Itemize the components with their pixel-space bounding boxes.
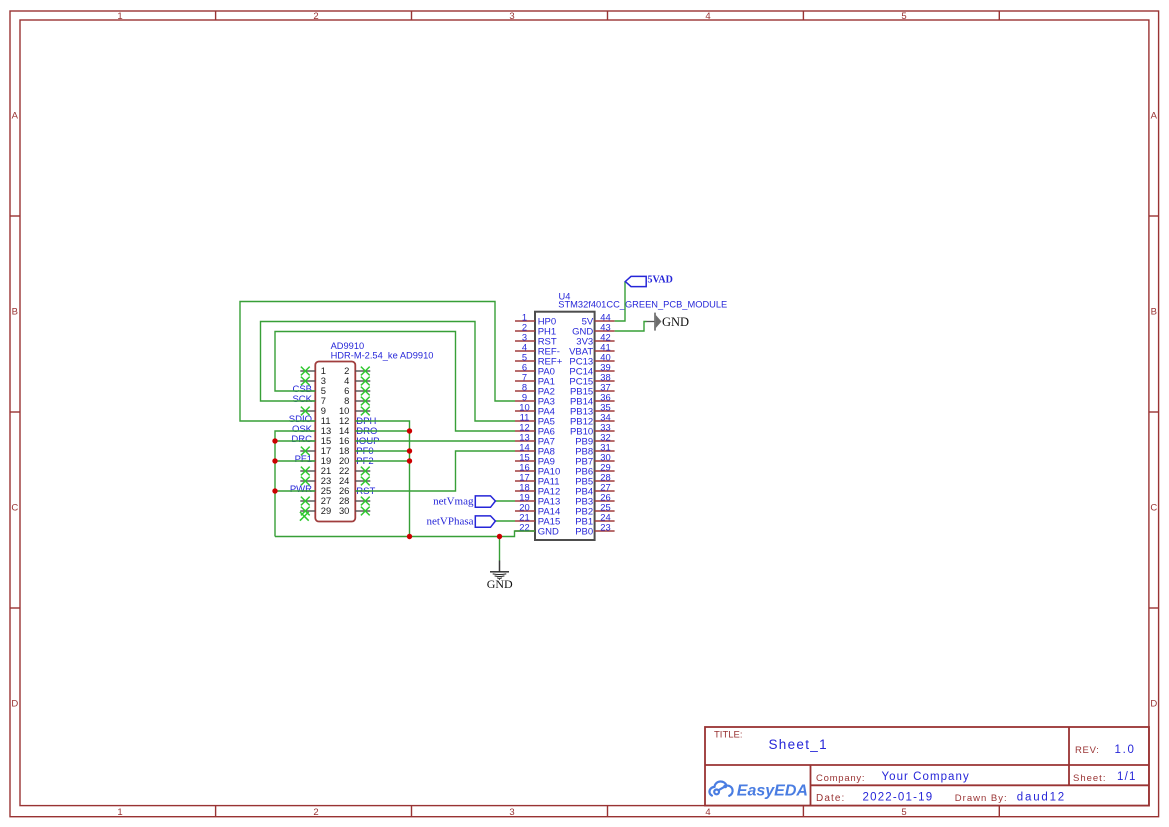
U4 pin 36 (PB14) — [570, 391, 615, 407]
svg-text:5: 5 — [901, 11, 906, 22]
net label PF2 at AD9910 right pin row 10 — [356, 456, 373, 467]
svg-text:REV:: REV: — [1075, 745, 1100, 756]
AD9910 pin 28 — [339, 495, 370, 506]
svg-text:EasyEDA: EasyEDA — [737, 782, 808, 799]
AD9910 pin 5 — [300, 385, 326, 396]
AD9910 pin 3 — [300, 375, 326, 386]
svg-text:A: A — [1151, 111, 1158, 122]
U4 pin 42 (3V3) — [576, 331, 614, 347]
U4 pin 14 (PA8) — [515, 441, 555, 457]
U4 pin 41 (VBAT) — [569, 341, 615, 357]
AD9910 pin 24 — [339, 475, 370, 486]
net port netVmag — [433, 496, 495, 508]
wire net CSB: AD9910 pin 5 to U4 PA6 — [275, 332, 515, 432]
svg-text:3: 3 — [509, 11, 514, 22]
U4 pin 33 (PB10) — [570, 421, 615, 437]
AD9910 pin 2 — [344, 365, 370, 376]
U4 pin 19 (PA13) — [515, 491, 560, 507]
U4 pin 34 (PB12) — [570, 411, 615, 427]
svg-text:Date:: Date: — [816, 793, 845, 804]
U4 pin 20 (PA14) — [515, 501, 560, 517]
wire net PF1: AD9910 pin 19 to left rail — [275, 460, 315, 462]
U4 pin 9 (PA3) — [515, 391, 555, 407]
ground symbol GND (right of U4 pin 43) — [647, 313, 661, 331]
AD9910 pin 14 — [339, 425, 370, 436]
AD9910 pin 16 — [339, 435, 370, 446]
component U4 body — [535, 312, 595, 540]
svg-text:Sheet_1: Sheet_1 — [769, 737, 828, 752]
U4 pin 17 (PA11) — [515, 471, 560, 487]
junction at 409.5,536.5 — [407, 534, 412, 539]
AD9910 pin 29 — [300, 505, 331, 516]
AD9910 pin 30 — [339, 505, 370, 516]
AD9910 pin 10 — [339, 405, 370, 416]
svg-text:PF1: PF1 — [295, 454, 312, 465]
svg-text:1.0: 1.0 — [1115, 744, 1136, 756]
svg-text:PWR: PWR — [290, 484, 312, 495]
net label DRC at AD9910 left pin row 8 — [291, 434, 312, 445]
junction at 275,441 — [272, 438, 277, 443]
AD9910 pin 7 — [300, 395, 326, 406]
net label PF0 at AD9910 right pin row 9 — [356, 446, 373, 457]
svg-text:1: 1 — [117, 11, 122, 22]
component AD9910 body — [315, 362, 355, 522]
U4 pin 6 (PA0) — [515, 361, 555, 377]
svg-text:A: A — [12, 111, 19, 122]
AD9910 pin 13 — [300, 425, 331, 436]
svg-text:1: 1 — [117, 807, 122, 818]
svg-text:TITLE:: TITLE: — [714, 730, 743, 741]
junction at 499.5,536.5 — [497, 534, 502, 539]
wire net DRC: AD9910 pin 15 to left rail — [275, 440, 315, 442]
wire net SCK: AD9910 pin 7 to U4 PA5 — [261, 322, 516, 422]
U4 pin 26 (PB3) — [575, 491, 614, 507]
AD9910 pin 8 — [344, 395, 370, 406]
svg-text:GND: GND — [487, 577, 513, 591]
AD9910 pin 17 — [300, 445, 331, 456]
wire net RST: AD9910 pin 26 to U4 PA8 — [355, 451, 515, 491]
U4 pin 10 (PA4) — [515, 401, 555, 417]
svg-text:netVPhasa: netVPhasa — [426, 516, 473, 528]
AD9910 pin 23 — [300, 475, 331, 486]
svg-text:2: 2 — [313, 807, 318, 818]
U4 pin 1 (HP0) — [515, 311, 556, 327]
AD9910 pin 18 — [339, 445, 370, 456]
svg-text:4: 4 — [705, 807, 710, 818]
U4 pin 32 (PB9) — [575, 431, 614, 447]
svg-text:23: 23 — [600, 521, 610, 532]
AD9910 pin 21 — [300, 465, 331, 476]
svg-text:HDR-M-2.54_ke AD9910: HDR-M-2.54_ke AD9910 — [331, 350, 434, 360]
wire net PWR: AD9910 pin 25 to left rail — [275, 490, 315, 492]
AD9910 pin 29 extra no-connect flag — [300, 512, 309, 521]
component U4 value label STM32f401CC_GREEN_PCB_MODULE — [558, 300, 727, 310]
net label IOUP at AD9910 right pin row 8 — [356, 436, 379, 447]
wire GND bottom rail to U4 pin 22 — [275, 531, 535, 537]
svg-text:D: D — [11, 699, 18, 710]
wire netVPhasa to U4 pin 21 — [495, 520, 515, 522]
svg-text:C: C — [1150, 503, 1157, 514]
AD9910 pin 20 — [339, 455, 370, 466]
net label CSB at AD9910 left pin row 3 — [292, 384, 312, 395]
U4 pin 8 (PA2) — [515, 381, 555, 397]
svg-text:SCK: SCK — [292, 394, 312, 405]
svg-text:29: 29 — [321, 505, 331, 516]
junction at 409.5,461 — [407, 458, 412, 463]
U4 pin 15 (PA9) — [515, 451, 555, 467]
wire GND to U4 pin 43 — [615, 322, 647, 332]
AD9910 pin 1 — [300, 365, 326, 376]
U4 pin 30 (PB7) — [575, 451, 614, 467]
U4 pin 31 (PB8) — [575, 441, 614, 457]
net label DRO at AD9910 right pin row 7 — [356, 426, 377, 437]
U4 pin 37 (PB15) — [570, 381, 615, 397]
svg-text:Sheet:: Sheet: — [1073, 773, 1106, 784]
svg-text:GND: GND — [538, 527, 559, 538]
U4 pin 23 (PB0) — [575, 521, 614, 537]
component U4 reference label — [559, 292, 571, 302]
wire netVmag to U4 pin 19 — [495, 500, 515, 502]
svg-text:3: 3 — [509, 807, 514, 818]
svg-text:2022-01-19: 2022-01-19 — [863, 792, 934, 804]
U4 pin 43 (GND) — [572, 321, 615, 337]
AD9910 pin 11 — [300, 415, 330, 426]
wire net DPH: AD9910 pin 12 down to GND rail — [355, 421, 409, 537]
wire net PF2: AD9910 pin 20 to vertical — [355, 460, 409, 462]
svg-text:Your Company: Your Company — [882, 771, 970, 783]
U4 pin 4 (REF-) — [515, 341, 560, 357]
U4 pin 11 (PA5) — [515, 411, 555, 427]
AD9910 pin 19 — [300, 455, 331, 466]
ground symbol GND label (right of U4 pin 43) — [662, 315, 689, 329]
junction at 409.5,431 — [407, 428, 412, 433]
svg-text:Drawn By:: Drawn By: — [955, 793, 1008, 804]
U4 pin 16 (PA10) — [515, 461, 560, 477]
net label SCK at AD9910 left pin row 4 — [292, 394, 312, 405]
svg-text:B: B — [1151, 307, 1157, 318]
AD9910 pin 15 — [300, 435, 331, 446]
U4 pin 25 (PB2) — [575, 501, 614, 517]
svg-text:4: 4 — [705, 11, 710, 22]
net label OSK at AD9910 left pin row 7 — [292, 424, 313, 435]
svg-text:DRC: DRC — [291, 434, 312, 445]
svg-text:GND: GND — [662, 315, 689, 329]
net label PF1 at AD9910 left pin row 10 — [295, 454, 312, 465]
svg-text:1/1: 1/1 — [1117, 771, 1137, 783]
AD9910 pin 9 — [300, 405, 326, 416]
svg-text:2: 2 — [313, 11, 318, 22]
AD9910 pin 4 — [344, 375, 370, 386]
svg-text:daud12: daud12 — [1017, 792, 1066, 804]
wire net PF0: AD9910 pin 18 to vertical — [355, 450, 409, 452]
wire GND drop to ground symbol — [499, 537, 501, 561]
U4 pin 39 (PC14) — [569, 361, 614, 377]
U4 pin 24 (PB1) — [575, 511, 614, 527]
component AD9910 value label HDR-M-2.54_ke AD9910 — [331, 350, 434, 360]
U4 pin 7 (PA1) — [515, 371, 555, 387]
U4 pin 13 (PA7) — [515, 431, 555, 447]
U4 pin 29 (PB6) — [575, 461, 614, 477]
U4 pin 2 (PH1) — [515, 321, 556, 337]
junction at 409.5,451 — [407, 448, 412, 453]
svg-text:30: 30 — [339, 505, 349, 516]
svg-text:netVmag: netVmag — [433, 496, 474, 508]
earth ground symbol at bottom — [490, 561, 509, 580]
net label RST at AD9910 right pin row 13 — [356, 486, 375, 497]
U4 pin 38 (PC15) — [569, 371, 614, 387]
wire net DRO: AD9910 pin 14 to vertical — [355, 430, 409, 432]
U4 pin 35 (PB13) — [570, 401, 615, 417]
U4 pin 22 (GND) — [515, 521, 559, 537]
power flag 5VAD — [625, 275, 673, 287]
net label SDIO at AD9910 left pin row 6 — [289, 414, 312, 425]
svg-text:C: C — [11, 503, 18, 514]
U4 pin 3 (RST) — [515, 331, 557, 347]
AD9910 pin 27 — [300, 495, 331, 506]
component AD9910 reference label — [331, 341, 365, 351]
U4 pin 40 (PC13) — [569, 351, 614, 367]
U4 pin 5 (REF+) — [515, 351, 563, 367]
U4 pin 44 (5V) — [582, 311, 615, 327]
junction at 275,461 — [272, 458, 277, 463]
svg-text:STM32f401CC_GREEN_PCB_MODULE: STM32f401CC_GREEN_PCB_MODULE — [558, 300, 727, 310]
AD9910 pin 12 — [339, 415, 370, 426]
AD9910 pin 22 — [339, 465, 370, 476]
U4 pin 27 (PB4) — [575, 481, 614, 497]
wire net 5VAD to U4 pin 44 — [615, 282, 625, 322]
U4 pin 12 (PA6) — [515, 421, 555, 437]
svg-text:Company:: Company: — [816, 773, 865, 784]
svg-text:D: D — [1150, 699, 1157, 710]
wire net IOUP: AD9910 pin 16 to U4 PA7 — [355, 440, 515, 442]
AD9910 pin 26 — [339, 485, 370, 496]
svg-text:PB0: PB0 — [575, 527, 593, 538]
svg-text:5: 5 — [901, 807, 906, 818]
svg-text:B: B — [12, 307, 18, 318]
net port netVPhasa — [426, 516, 495, 528]
U4 pin 18 (PA12) — [515, 481, 560, 497]
wire net OSK: AD9910 pin 13 down left rail — [275, 431, 315, 537]
U4 pin 28 (PB5) — [575, 471, 614, 487]
earth ground GND label at bottom — [487, 577, 513, 591]
junction at 275,491 — [272, 488, 277, 493]
wire net SDIO: AD9910 pin 11 to U4 PA3 — [240, 302, 515, 422]
net label DPH at AD9910 right pin row 6 — [356, 416, 376, 427]
net label PWR at AD9910 left pin row 13 — [290, 484, 312, 495]
AD9910 pin 6 — [344, 385, 370, 396]
svg-text:5VAD: 5VAD — [648, 275, 673, 286]
AD9910 pin 25 — [300, 485, 331, 496]
U4 pin 21 (PA15) — [515, 511, 560, 527]
